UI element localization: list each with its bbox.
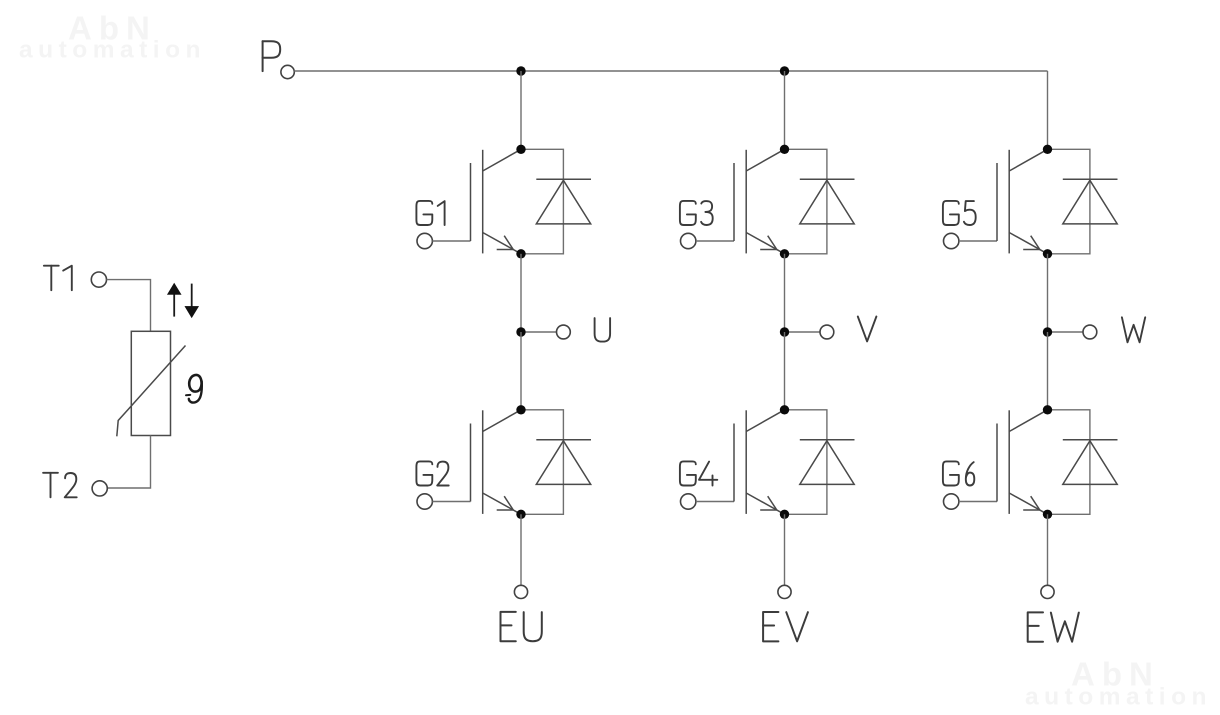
label EV <box>763 612 808 641</box>
svg-text:automation: automation <box>1025 684 1212 711</box>
wire rail to Q5 collector <box>1047 71 1049 149</box>
node Q1 emitter <box>516 249 525 258</box>
wire V upper <box>784 254 786 332</box>
label T2 <box>43 473 77 498</box>
gate terminal G3 <box>681 233 696 248</box>
node top-rail phase U <box>516 66 525 75</box>
wire emitter EU <box>520 514 522 585</box>
node output V <box>780 327 789 336</box>
diode D6 (anti-parallel) <box>1048 410 1118 515</box>
label G3 <box>680 201 713 225</box>
wire W lower <box>1047 332 1049 410</box>
label G5 <box>943 201 976 225</box>
label EU <box>501 612 542 641</box>
node output W <box>1043 327 1052 336</box>
node top-rail phase V <box>780 66 789 75</box>
transistor Q6 (IGBT, gate G6) <box>997 410 1048 515</box>
gate terminal G2 <box>417 494 432 509</box>
node Q2 collector <box>516 405 525 414</box>
thermistor RT1 body <box>117 331 186 436</box>
wire emitter EV <box>784 514 786 585</box>
watermark bottom-right <box>1025 656 1212 711</box>
watermark top-left <box>19 10 206 64</box>
node output U <box>516 327 525 336</box>
bidirectional arrows (heat flow) <box>168 283 199 317</box>
diode D1 (anti-parallel) <box>521 149 591 254</box>
wire T1 to thermistor <box>107 280 151 332</box>
label EW <box>1028 612 1079 641</box>
wire V stub <box>785 331 821 333</box>
gate terminal G6 <box>944 494 959 509</box>
diode D5 (anti-parallel) <box>1048 149 1118 254</box>
terminal P <box>281 65 294 78</box>
node Q5 emitter <box>1043 249 1052 258</box>
transistor Q1 (IGBT, gate G1) <box>471 149 522 254</box>
label G2 <box>416 461 448 485</box>
wire gate G3 <box>696 240 734 242</box>
node Q3 emitter <box>780 249 789 258</box>
wire U stub <box>521 331 557 333</box>
label T1 <box>44 266 72 291</box>
node Q2 emitter <box>516 510 525 519</box>
transistor Q5 (IGBT, gate G5) <box>997 149 1048 254</box>
diode D3 (anti-parallel) <box>785 149 855 254</box>
terminal EW <box>1041 585 1054 598</box>
wire gate G2 <box>432 501 470 503</box>
terminal EV <box>778 585 791 598</box>
wire gate G6 <box>959 501 997 503</box>
wire rail to Q1 collector <box>520 71 522 149</box>
transistor Q2 (IGBT, gate G2) <box>471 410 522 515</box>
node Q6 emitter <box>1043 510 1052 519</box>
node Q5 collector <box>1043 145 1052 154</box>
label G6 <box>943 461 974 485</box>
transistor Q3 (IGBT, gate G3) <box>734 149 785 254</box>
wire W upper <box>1047 254 1049 332</box>
label P <box>263 41 281 71</box>
terminal W <box>1083 325 1097 339</box>
wire gate G4 <box>696 501 734 503</box>
wire P+ top rail <box>294 70 1047 72</box>
label W <box>1122 317 1145 342</box>
label G4 <box>680 461 717 485</box>
wire W stub <box>1048 331 1084 333</box>
svg-text:automation: automation <box>19 37 206 64</box>
gate terminal G5 <box>944 233 959 248</box>
wire gate G5 <box>959 240 997 242</box>
wire emitter EW <box>1047 514 1049 585</box>
label V <box>858 317 877 342</box>
node Q6 collector <box>1043 405 1052 414</box>
diode D4 (anti-parallel) <box>785 410 855 515</box>
terminal T2 <box>92 481 107 496</box>
node Q3 collector <box>780 145 789 154</box>
wire U lower <box>520 332 522 410</box>
label theta (temperature) <box>186 375 202 403</box>
label G1 <box>416 201 444 225</box>
terminal U <box>557 325 571 339</box>
wire rail to Q3 collector <box>784 71 786 149</box>
terminal T1 <box>91 272 106 287</box>
wire gate G1 <box>432 240 470 242</box>
node Q4 collector <box>780 405 789 414</box>
wire thermistor to T2 <box>107 436 150 489</box>
node Q1 collector <box>516 145 525 154</box>
gate terminal G4 <box>681 494 696 509</box>
node Q4 emitter <box>780 510 789 519</box>
label U <box>595 318 611 342</box>
transistor Q4 (IGBT, gate G4) <box>734 410 785 515</box>
gate terminal G1 <box>417 233 432 248</box>
terminal V <box>820 325 834 339</box>
wire V lower <box>784 332 786 410</box>
terminal EU <box>514 585 527 598</box>
wire U upper <box>520 254 522 332</box>
diode D2 (anti-parallel) <box>521 410 591 515</box>
